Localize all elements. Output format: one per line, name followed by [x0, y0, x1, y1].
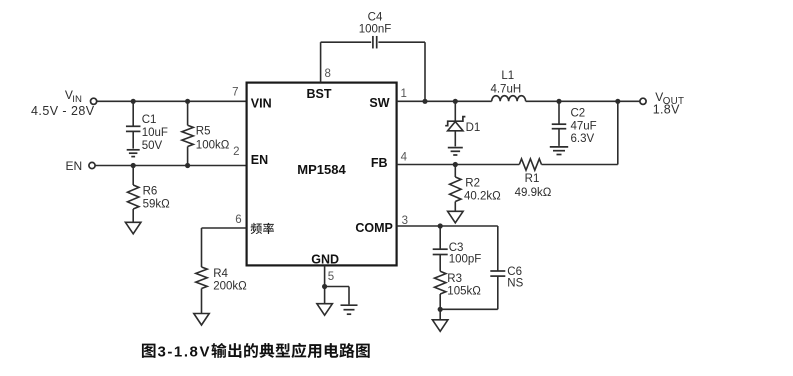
svg-text:1.8V: 1.8V	[653, 102, 680, 116]
node C3-C6 bottom junction	[438, 307, 443, 312]
svg-text:100kΩ: 100kΩ	[196, 140, 230, 152]
node SW-C4 junction	[422, 99, 427, 104]
wire C6 bottom	[440, 308, 498, 310]
node FB-R2 junction	[453, 162, 458, 167]
node VIN label	[31, 88, 95, 118]
wire GND branch right	[325, 287, 349, 305]
wire GND pin 5	[324, 265, 326, 303]
svg-text:8: 8	[325, 68, 331, 80]
svg-text:7: 7	[232, 87, 238, 99]
IC U1 name MP1584	[297, 162, 346, 177]
ground GND triangle	[317, 304, 333, 316]
svg-text:6: 6	[235, 214, 241, 226]
pin FB name	[371, 156, 388, 170]
svg-text:BST: BST	[307, 87, 332, 101]
wire FB rail left	[397, 164, 520, 166]
capacitor C6	[490, 226, 523, 309]
resistor R6	[128, 166, 171, 223]
pin BST name	[307, 87, 332, 101]
svg-text:2: 2	[233, 146, 239, 158]
svg-text:C1: C1	[142, 114, 157, 126]
pin 7 number	[232, 87, 238, 99]
wire C4 top right	[378, 41, 425, 43]
pin 8 number	[325, 68, 331, 80]
svg-text:FB: FB	[371, 156, 388, 170]
pin 1 number	[401, 88, 407, 100]
svg-text:EN: EN	[251, 153, 268, 167]
resistor R4	[196, 267, 247, 314]
svg-text:C2: C2	[571, 108, 586, 120]
svg-text:5: 5	[328, 271, 334, 283]
svg-text:COMP: COMP	[355, 221, 393, 235]
node VOUT branch junction	[615, 99, 620, 104]
svg-text:D1: D1	[466, 122, 481, 134]
svg-text:NS: NS	[507, 278, 523, 290]
svg-text:4.7uH: 4.7uH	[490, 83, 521, 95]
capacitor C4	[359, 12, 392, 49]
terminal VOUT	[640, 98, 646, 104]
pin SW name	[369, 96, 389, 110]
wire FB to VOUT vertical	[617, 101, 619, 164]
svg-text:C4: C4	[368, 12, 383, 24]
node SW-C2 junction	[556, 99, 561, 104]
svg-text:40.2kΩ: 40.2kΩ	[464, 191, 501, 203]
svg-text:3-1.8V: 3-1.8V	[158, 344, 212, 361]
svg-text:R5: R5	[196, 126, 211, 138]
ground C2	[550, 147, 568, 155]
pin 6 name (CJK: frequency)	[251, 223, 274, 234]
svg-text:C3: C3	[449, 242, 464, 254]
svg-text:R4: R4	[213, 268, 228, 280]
svg-text:R3: R3	[447, 273, 462, 285]
resistor R5	[182, 101, 230, 165]
resistor R3	[435, 271, 482, 320]
wire SW rail left	[397, 100, 492, 102]
svg-text:EN: EN	[66, 159, 83, 173]
diode D1 (schottky)	[445, 101, 480, 146]
ground GND 3-line	[341, 305, 358, 314]
pin 6 number	[235, 214, 241, 226]
inductor L1	[490, 70, 525, 101]
node COMP-C3 junction	[438, 223, 443, 228]
svg-text:C6: C6	[507, 266, 522, 278]
svg-text:L1: L1	[501, 70, 514, 82]
svg-text:10uF: 10uF	[142, 127, 168, 139]
svg-text:59kΩ: 59kΩ	[143, 198, 171, 210]
ground R4	[194, 314, 209, 326]
node SW-D1 junction	[453, 99, 458, 104]
wire VIN rail	[97, 100, 247, 102]
svg-text:VIN: VIN	[251, 97, 272, 111]
pin VIN name	[251, 97, 272, 111]
svg-text:4: 4	[401, 152, 408, 164]
wire COMP rail	[397, 225, 498, 227]
capacitor C2	[552, 101, 597, 146]
capacitor C3	[433, 226, 482, 271]
wire FB rail right	[542, 164, 618, 166]
caption 1.8V typical application circuit	[142, 343, 370, 361]
node EN-R5 junction	[185, 163, 190, 168]
ground C1	[127, 150, 140, 157]
resistor R2	[450, 165, 502, 212]
pin COMP name	[355, 221, 393, 235]
terminal EN	[89, 162, 95, 168]
ground R6	[125, 222, 140, 234]
svg-text:47uF: 47uF	[571, 121, 597, 133]
svg-text:1: 1	[401, 88, 407, 100]
node EN-R6 junction	[131, 163, 136, 168]
node GND junction	[322, 284, 327, 289]
wire BST pin 8	[320, 42, 322, 82]
wire C4 right vertical	[424, 42, 426, 101]
svg-text:SW: SW	[369, 96, 389, 110]
svg-text:100nF: 100nF	[359, 23, 392, 35]
svg-text:6.3V: 6.3V	[571, 133, 595, 145]
svg-text:49.9kΩ: 49.9kΩ	[515, 187, 552, 199]
pin GND name	[311, 253, 339, 267]
wire SW rail right	[526, 100, 640, 102]
svg-text:R1: R1	[525, 173, 540, 185]
svg-text:MP1584: MP1584	[297, 162, 346, 177]
svg-text:200kΩ: 200kΩ	[213, 281, 247, 293]
pin 5 number	[328, 271, 334, 283]
svg-text:50V: 50V	[142, 140, 163, 152]
node VIN-C1 junction	[131, 99, 136, 104]
terminal VIN	[91, 98, 97, 104]
svg-text:4.5V - 28V: 4.5V - 28V	[31, 104, 95, 118]
pin EN name	[251, 153, 268, 167]
svg-text:GND: GND	[311, 253, 339, 267]
svg-text:105kΩ: 105kΩ	[447, 286, 481, 298]
pin 3 number	[402, 215, 408, 227]
node VOUT label	[653, 90, 685, 117]
wire C4 top left	[321, 41, 372, 43]
ground D1	[448, 148, 463, 155]
node EN label	[66, 159, 83, 173]
svg-text:R2: R2	[465, 178, 480, 190]
pin 2 number	[233, 146, 239, 158]
resistor R1	[515, 159, 552, 199]
wire pin 6 to R4	[202, 228, 247, 267]
capacitor C1	[126, 101, 168, 152]
wire EN rail	[95, 165, 247, 167]
pin 4 number	[401, 152, 408, 164]
svg-text:R6: R6	[143, 185, 158, 197]
svg-text:100pF: 100pF	[449, 254, 482, 266]
ground R2	[448, 211, 464, 223]
ground R3	[432, 320, 448, 332]
node VIN-R5 junction	[185, 99, 190, 104]
IC U1 MP1584 body	[247, 83, 397, 266]
